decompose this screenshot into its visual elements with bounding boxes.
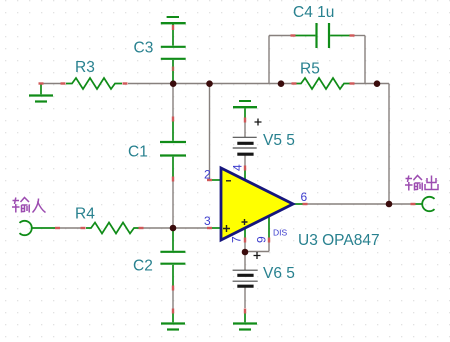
svg-text:7: 7 <box>230 236 244 243</box>
svg-text:U3 OPA847: U3 OPA847 <box>298 232 380 249</box>
svg-text:R3: R3 <box>75 59 95 76</box>
svg-text:C3: C3 <box>134 40 154 57</box>
svg-text:3: 3 <box>204 214 211 228</box>
svg-text:C4 1u: C4 1u <box>293 4 334 21</box>
svg-text:C1: C1 <box>128 144 148 161</box>
svg-text:C2: C2 <box>133 258 153 275</box>
svg-text:2: 2 <box>204 168 211 182</box>
svg-text:6: 6 <box>301 190 308 204</box>
svg-text:4: 4 <box>231 164 245 171</box>
svg-text:9: 9 <box>255 236 269 243</box>
svg-text:V6 5: V6 5 <box>263 265 295 282</box>
svg-text:R4: R4 <box>75 206 95 223</box>
svg-text:V5 5: V5 5 <box>263 132 295 149</box>
svg-text:R5: R5 <box>300 61 320 78</box>
svg-text:DIS: DIS <box>273 228 288 238</box>
